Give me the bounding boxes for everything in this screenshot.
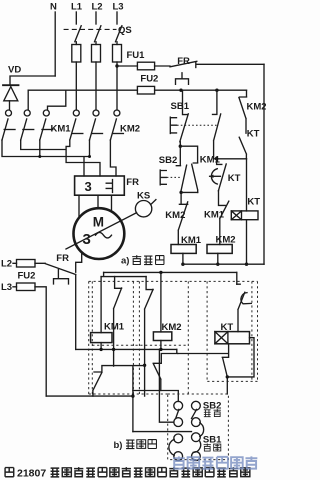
fuse FU1 phase L2 <box>92 45 101 63</box>
watermark blue <box>173 456 257 468</box>
button SB1 NO contact <box>213 90 221 159</box>
fuse FU2a wiring <box>17 260 36 268</box>
big dashed enclosure <box>89 281 258 394</box>
switch QS pole 2 blade <box>95 26 101 42</box>
svg-text:L3: L3 <box>113 2 124 13</box>
node wire2-SB1 <box>179 89 182 92</box>
button SB1 NC contact <box>180 90 189 146</box>
svg-text:FR: FR <box>56 253 69 264</box>
button station dashed box <box>168 394 229 460</box>
svg-text:SB1: SB1 <box>171 101 190 112</box>
wire KT branch through coil <box>246 159 248 264</box>
contact KT delayed wiring <box>236 272 238 284</box>
button SB2 actuator <box>160 170 166 185</box>
linkage SB1 dashed <box>177 124 217 126</box>
contact KM1 NC interlock <box>219 191 229 245</box>
svg-text:L3: L3 <box>1 282 12 293</box>
coil KM2 wiring <box>159 271 162 274</box>
contact KT delayed <box>217 159 227 191</box>
speed switch KS <box>135 201 151 217</box>
wire bottom return <box>183 263 264 265</box>
switch QS pole 1 blade <box>75 26 81 42</box>
diode VD <box>3 84 19 86</box>
svg-text:KM2: KM2 <box>247 101 267 112</box>
button bridges <box>176 409 201 452</box>
wire N to diode <box>10 76 55 85</box>
wire right edge return <box>263 64 265 264</box>
svg-text:a): a) <box>121 256 129 267</box>
wire L2 lead <box>95 12 97 24</box>
wire bus 349 <box>76 348 177 350</box>
wire comb pole2-pole4 <box>21 140 100 176</box>
contact KT lower wiring <box>178 344 229 394</box>
wire feeder A <box>104 271 237 273</box>
wire L1 lead <box>75 12 77 24</box>
contactor KM1 brake pole 2 <box>24 110 30 116</box>
wire comb pole6 <box>110 140 116 176</box>
wire control line 2 <box>28 89 137 91</box>
fuse FU2 upper <box>137 62 154 70</box>
contactor KM1 brake pole 3 <box>43 110 49 116</box>
contactor KM2 run pole 3 <box>114 110 120 116</box>
svg-text:FR: FR <box>126 177 139 188</box>
svg-text:KM1: KM1 <box>204 210 225 221</box>
wire FR box to motor <box>79 195 112 218</box>
button SB1 actuator <box>170 117 176 133</box>
svg-text:FU2: FU2 <box>18 271 36 282</box>
relay FR thermal element <box>176 73 189 85</box>
fuse FU2 lower <box>137 86 154 94</box>
wire feeder B <box>101 272 146 276</box>
node B below SB2 <box>179 191 182 194</box>
wire to button row2 <box>159 349 174 422</box>
svg-text:SB2: SB2 <box>159 155 177 166</box>
button terminals right column <box>192 401 201 410</box>
svg-text:KS: KS <box>137 191 150 202</box>
svg-text:KT: KT <box>247 129 260 140</box>
fuse FU1 phase L3 <box>113 45 122 63</box>
contactor KM2 run pole 2 <box>93 110 99 116</box>
svg-text:KM1: KM1 <box>104 322 125 333</box>
wire comb pole1-pole5 <box>2 140 90 176</box>
svg-text:KM1: KM1 <box>51 124 72 135</box>
wire L3 path <box>46 396 191 432</box>
wire riser brake pole 3 <box>48 90 66 110</box>
contact KM2 aux wiring <box>145 277 154 397</box>
wire L3 lead <box>116 12 118 24</box>
svg-text:M: M <box>93 215 104 230</box>
wire node line <box>214 158 247 160</box>
contact KM1 aux wiring <box>114 277 122 367</box>
motor M1 <box>74 208 125 259</box>
contactor KM2 run pole 1 <box>73 110 79 116</box>
node A below SB1 <box>179 145 182 148</box>
svg-text:FR: FR <box>177 56 190 67</box>
dashed box KM1 <box>92 281 133 394</box>
switch QS pole 3 blade <box>116 26 122 42</box>
svg-text:KM2: KM2 <box>120 124 140 135</box>
contact FR NC (control) <box>170 61 197 67</box>
svg-text:KT: KT <box>247 197 260 208</box>
button arcs <box>169 439 174 455</box>
wire long vertical to buttons <box>132 366 134 432</box>
svg-text:b): b) <box>114 440 123 451</box>
wire riser brake pole 2 <box>27 90 29 110</box>
wire KM2 branch corner <box>246 90 248 97</box>
contact KM1 lower wiring <box>93 366 145 397</box>
dashed box KT <box>207 281 252 381</box>
fuse FU1 phase L1 <box>72 45 81 63</box>
node wire2-SB1NO <box>215 89 218 92</box>
wire QS to fuses <box>76 42 117 45</box>
dashed box KM2 <box>139 281 188 394</box>
svg-text:3: 3 <box>85 179 92 194</box>
svg-text:L2: L2 <box>1 259 12 270</box>
svg-text:FU2: FU2 <box>140 74 158 85</box>
svg-text:FU1: FU1 <box>127 50 146 61</box>
fuse FU2b wiring <box>17 283 36 291</box>
svg-text:KT: KT <box>228 173 241 184</box>
relay FR heater box <box>75 176 125 195</box>
svg-text:L1: L1 <box>71 2 83 13</box>
contactor KM1 brake pole 1 <box>6 110 12 116</box>
svg-text:VD: VD <box>8 65 21 76</box>
svg-text:L2: L2 <box>92 2 103 13</box>
button SB2 NO contact <box>176 165 186 192</box>
svg-text:N: N <box>50 2 57 13</box>
svg-text:21807: 21807 <box>17 468 46 480</box>
wire N vertical <box>54 12 56 76</box>
contact KM2 lower wiring <box>153 349 178 390</box>
button terminals left column <box>174 401 183 410</box>
wire control tap L3 <box>115 64 118 67</box>
shaft link motor to KS <box>66 213 137 249</box>
wire to button row1 <box>133 391 178 402</box>
switch QS linkage dashed line <box>64 28 117 30</box>
svg-text:QS: QS <box>118 25 132 36</box>
